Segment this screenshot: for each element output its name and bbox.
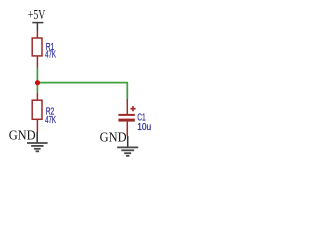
right ground symbol <box>117 147 138 155</box>
capacitor C1 ref label <box>137 112 146 123</box>
left GND label <box>9 129 36 144</box>
resistor R2 bottom pin <box>36 119 38 132</box>
right GND label <box>100 131 127 146</box>
wire: power to R1 <box>36 30 38 38</box>
wire: junction to capacitor branch <box>38 82 129 84</box>
wire: branch corner down <box>126 83 128 99</box>
resistor R2 ref label <box>46 107 55 118</box>
wire: junction to R2 <box>36 83 38 93</box>
left ground terminal pin <box>36 132 38 143</box>
svg-text:+5V: +5V <box>28 8 45 23</box>
svg-text:47K: 47K <box>45 115 56 126</box>
capacitor C1 bottom plate <box>118 119 134 122</box>
resistor R1 ref label <box>46 42 55 53</box>
power terminal pin <box>36 23 38 30</box>
left ground symbol <box>27 143 48 151</box>
resistor R2 top pin <box>36 93 38 100</box>
capacitor C1 top pin <box>126 99 128 114</box>
svg-text:10u: 10u <box>137 122 151 133</box>
resistor R2 value 47K <box>45 115 56 126</box>
power terminal bar <box>32 22 43 24</box>
resistor R1 body <box>32 38 42 56</box>
junction dot <box>35 80 40 85</box>
capacitor C1 plus sign <box>130 106 135 111</box>
resistor R1 bottom pin <box>36 56 38 68</box>
svg-text:GND: GND <box>100 131 127 146</box>
capacitor C1 value 10u <box>137 122 151 133</box>
wire: R1 to junction <box>36 68 38 83</box>
capacitor C1 top plate <box>118 114 134 116</box>
svg-text:GND: GND <box>9 129 36 144</box>
right ground terminal pin <box>127 136 129 147</box>
resistor R2 body <box>32 100 42 119</box>
capacitor C1 bottom pin <box>126 122 128 136</box>
svg-text:47K: 47K <box>45 50 56 61</box>
resistor R1 value 47K <box>45 50 56 61</box>
power terminal +5V label <box>28 8 45 23</box>
